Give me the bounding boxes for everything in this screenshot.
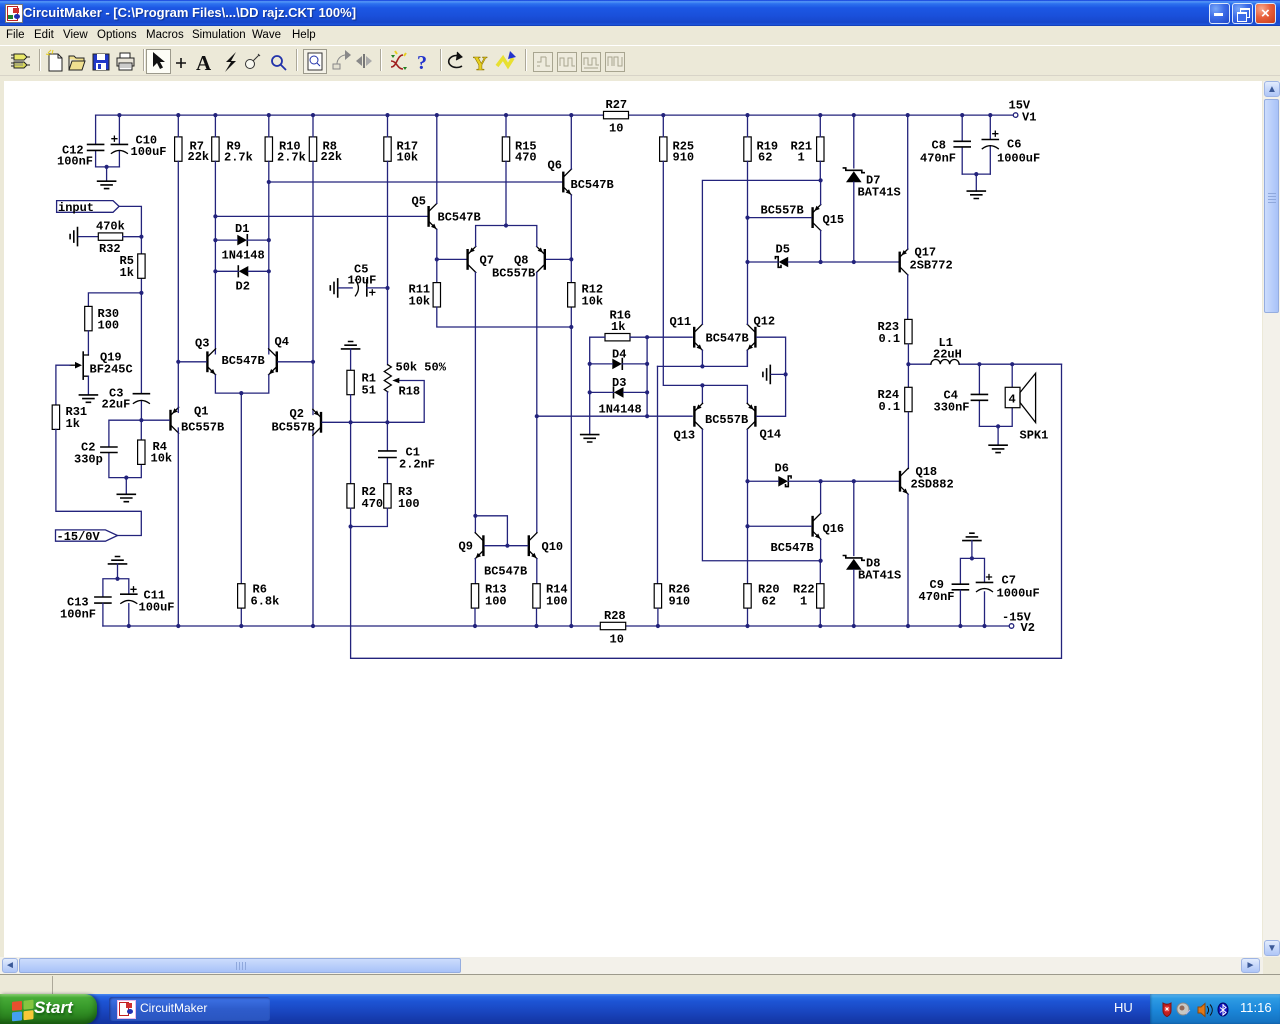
wire Q6 emitter to Q8 base / R12 bbox=[570, 195, 572, 283]
svg-text:2SB772: 2SB772 bbox=[910, 259, 953, 273]
svg-text:1N4148: 1N4148 bbox=[222, 249, 265, 263]
wire Q8 collector column to Q10 bbox=[536, 272, 538, 532]
svg-text:470: 470 bbox=[362, 497, 384, 511]
wire Q15 collector to D5 row bbox=[820, 231, 822, 262]
svg-text:910: 910 bbox=[669, 595, 691, 609]
capacitor C10 (electrolytic) bbox=[111, 115, 166, 167]
diode D8 (BAT41S schottky) bbox=[843, 556, 901, 583]
svg-text:1: 1 bbox=[800, 595, 807, 609]
wire feedback loop (output return) bbox=[351, 364, 1062, 658]
svg-text:10: 10 bbox=[610, 633, 624, 647]
svg-text:V1: V1 bbox=[1022, 111, 1036, 125]
wire Q9/Q10 base tie bbox=[485, 545, 528, 547]
svg-text:2.7k: 2.7k bbox=[277, 151, 306, 165]
svg-text:4: 4 bbox=[1009, 393, 1016, 407]
transistor Q16 (BC547B NPN) bbox=[771, 513, 845, 555]
wire R14 bottom bbox=[536, 609, 538, 627]
svg-text:470: 470 bbox=[515, 151, 537, 165]
resistor R26 bbox=[654, 583, 690, 609]
junction bbox=[700, 364, 704, 368]
svg-text:Q3: Q3 bbox=[195, 337, 209, 351]
svg-text:62: 62 bbox=[758, 151, 772, 165]
diode D5 (BAT41S schottky) bbox=[775, 243, 790, 268]
svg-text:BC557B: BC557B bbox=[761, 204, 804, 218]
junction bbox=[974, 172, 978, 176]
wire Q14 base to mid ground column bbox=[757, 374, 786, 416]
svg-text:Q16: Q16 bbox=[823, 522, 845, 536]
svg-text:-15/0V: -15/0V bbox=[57, 530, 101, 544]
resistor R32 bbox=[96, 220, 125, 257]
svg-text:BAT41S: BAT41S bbox=[858, 186, 901, 200]
wire R11/R12 bottoms join bbox=[437, 307, 572, 327]
junction bbox=[139, 235, 143, 239]
junction bbox=[435, 257, 439, 261]
wire ground to C9/C7 tops bbox=[960, 541, 984, 584]
capacitor C2 bbox=[74, 420, 141, 477]
svg-text:330p: 330p bbox=[74, 453, 103, 467]
wire R2/R3 bottoms join bbox=[351, 508, 388, 526]
svg-text:BC547B: BC547B bbox=[706, 332, 749, 346]
menu bar bbox=[0, 26, 1280, 45]
diode D3 (1N4148) bbox=[599, 376, 642, 417]
capacitor C4 bbox=[934, 364, 988, 426]
terminal V2 bbox=[1002, 611, 1035, 636]
junction bbox=[239, 391, 243, 395]
junction dots D1 bbox=[213, 238, 271, 242]
svg-text:R18: R18 bbox=[399, 385, 421, 399]
wire Q7/Q8 emitter rail bbox=[476, 226, 537, 247]
svg-text:D5: D5 bbox=[776, 243, 790, 257]
transistor Q17 (2SB772 PNP) bbox=[899, 246, 953, 276]
transistor Q10 (BC547B NPN) bbox=[484, 533, 563, 579]
junction dots D2 bbox=[213, 269, 271, 273]
svg-text:Q1: Q1 bbox=[194, 405, 208, 419]
junction bbox=[996, 424, 1000, 428]
wire Q11/Q12 emitters row bbox=[658, 350, 748, 366]
svg-text:BC547B: BC547B bbox=[571, 178, 614, 192]
svg-text:0.1: 0.1 bbox=[879, 400, 901, 414]
transistor Q3 (BC547B NPN) bbox=[195, 337, 265, 375]
svg-text:Q15: Q15 bbox=[823, 213, 845, 227]
capacitor C7 (electrolytic) bbox=[977, 574, 1040, 627]
svg-text:2.2nF: 2.2nF bbox=[399, 458, 435, 472]
svg-text:1k: 1k bbox=[66, 417, 80, 431]
resistor R25 bbox=[660, 137, 695, 165]
status strip bbox=[0, 974, 1280, 994]
wire Q5 emitter column bbox=[436, 229, 438, 282]
svg-text:R27: R27 bbox=[606, 98, 628, 112]
capacitor C12 bbox=[57, 115, 104, 168]
diode D4 (1N4148) bbox=[612, 348, 626, 370]
transistor Q19 (JFET BF245C) bbox=[70, 351, 133, 380]
wire Q12 emitter bbox=[746, 350, 748, 366]
wire D2 bbox=[215, 270, 268, 272]
toolbar bbox=[0, 45, 1280, 76]
wire Q7 base bbox=[437, 258, 467, 260]
wire top +15V rail bbox=[96, 114, 1014, 116]
wire R26 bottom bbox=[657, 609, 659, 627]
svg-text:D2: D2 bbox=[236, 280, 250, 294]
svg-text:D4: D4 bbox=[612, 348, 626, 362]
svg-text:100: 100 bbox=[398, 497, 420, 511]
svg-text:10k: 10k bbox=[397, 151, 419, 165]
wire C4 bottom to ground bbox=[979, 426, 998, 445]
svg-text:330nF: 330nF bbox=[934, 401, 970, 415]
terminal V1 bbox=[1009, 99, 1037, 125]
wire D7 column bbox=[853, 115, 855, 262]
wire D8 column bbox=[853, 481, 855, 626]
svg-text:Q7: Q7 bbox=[480, 254, 494, 268]
resistor R13 bbox=[471, 583, 506, 609]
wire Q6 base row bbox=[269, 181, 562, 183]
svg-text:0.1: 0.1 bbox=[879, 332, 901, 346]
svg-text:Q13: Q13 bbox=[674, 429, 696, 443]
svg-text:470nF: 470nF bbox=[920, 152, 956, 166]
wire Q2 base row to pot wiper bbox=[322, 381, 424, 423]
wire Q15 base bbox=[748, 217, 812, 219]
wire R17/R18 column bbox=[387, 115, 389, 365]
svg-text:10k: 10k bbox=[582, 295, 604, 309]
svg-text:D1: D1 bbox=[235, 222, 249, 236]
svg-text:Q5: Q5 bbox=[412, 195, 426, 209]
wire Q2 emitter column bbox=[312, 362, 314, 415]
svg-text:BC547B: BC547B bbox=[222, 354, 265, 368]
transistor Q6 (BC547B NPN) bbox=[548, 159, 614, 196]
svg-text:Q14: Q14 bbox=[760, 428, 782, 442]
wire R20 column bbox=[747, 481, 749, 626]
resistor R8 bbox=[309, 137, 342, 164]
wire Q3/Q4 emitters join bbox=[215, 375, 268, 393]
resistor R7 bbox=[175, 137, 210, 164]
junction dots top rail bbox=[117, 113, 992, 117]
resistor R3 bbox=[384, 484, 420, 511]
wire ground to R1 bbox=[350, 349, 352, 370]
ground under C8/C6 bbox=[967, 191, 985, 198]
svg-text:V2: V2 bbox=[1021, 621, 1035, 635]
junction dots D5 row bbox=[819, 260, 856, 264]
svg-text:BC557B: BC557B bbox=[705, 413, 748, 427]
svg-text:22k: 22k bbox=[188, 150, 210, 164]
junction dots Q2 base row bbox=[349, 420, 390, 424]
svg-text:22uH: 22uH bbox=[933, 348, 962, 362]
wire Q10 emitter to R14 bbox=[536, 559, 538, 584]
transistor Q11 (BC547B NPN) bbox=[670, 315, 749, 350]
diode D7 (BAT41S schottky) bbox=[843, 168, 900, 200]
wire Q1 emitter to R7 column bbox=[177, 362, 179, 413]
wire Q9 collector-base tie bbox=[475, 516, 507, 546]
svg-text:Y: Y bbox=[473, 53, 488, 75]
wire Q5 collector to rail bbox=[436, 115, 438, 203]
diode D6 (BAT41S schottky) bbox=[775, 462, 792, 487]
wire R5 bottom to R30 bbox=[88, 293, 141, 307]
transistor Q4 (BC547B NPN, mirrored) bbox=[269, 335, 289, 375]
svg-text:1: 1 bbox=[798, 151, 805, 165]
capacitor C13 bbox=[60, 596, 111, 627]
ground under D-chain bbox=[581, 435, 599, 442]
wire Q5 base row bbox=[215, 215, 427, 217]
svg-text:C6: C6 bbox=[1007, 138, 1021, 152]
wire ground to C13/C11 tops bbox=[103, 564, 129, 597]
resistor R19 bbox=[744, 137, 778, 165]
wire Q16 collector bbox=[820, 481, 822, 513]
wire R16 left / D-chain left column bbox=[590, 337, 605, 434]
svg-text:R28: R28 bbox=[604, 609, 626, 623]
capacitor C6 (electrolytic) bbox=[982, 115, 1040, 174]
wire Q11 collector to R21 node bbox=[702, 180, 820, 324]
svg-text:10k: 10k bbox=[151, 452, 173, 466]
wire R1 bottom bbox=[350, 395, 352, 423]
resistor R12 bbox=[568, 283, 604, 309]
svg-text:100nF: 100nF bbox=[57, 155, 93, 169]
junction bbox=[213, 214, 217, 218]
speaker SPK1 bbox=[998, 364, 1048, 442]
transistor Q14 (BC557B PNP, mirrored) bbox=[747, 403, 781, 441]
wire Q7 collector column to Q9 bbox=[474, 272, 476, 532]
svg-text:2.7k: 2.7k bbox=[224, 151, 253, 165]
junction bbox=[504, 223, 508, 227]
ground left of R32 bbox=[70, 228, 98, 246]
ground under C4/SPK1 bbox=[989, 445, 1007, 452]
resistor R16 bbox=[605, 309, 631, 341]
junction dots bottom rail bbox=[127, 624, 987, 628]
wire Q13 collector to Q16 emitter row bbox=[702, 430, 820, 561]
svg-text:22k: 22k bbox=[321, 150, 343, 164]
resistor R2 bbox=[347, 422, 383, 511]
transistor Q12 (BC547B NPN, mirrored) bbox=[747, 315, 775, 351]
transistor Q5 (BC547B NPN) bbox=[412, 195, 481, 230]
wire R32 to node bbox=[123, 236, 142, 238]
node input flag bbox=[57, 201, 120, 215]
svg-text:10k: 10k bbox=[409, 295, 431, 309]
wire D5 row to Q17 base bbox=[748, 261, 899, 263]
svg-text:BC547B: BC547B bbox=[484, 565, 527, 579]
wire D3 bbox=[590, 391, 647, 393]
ground above C9/C7 bbox=[963, 533, 981, 540]
transistor Q15 (BC557B PNP) bbox=[761, 204, 845, 231]
wire R10 column bbox=[268, 115, 270, 354]
svg-text:C8: C8 bbox=[932, 139, 946, 153]
svg-text:100: 100 bbox=[546, 595, 568, 609]
junction bbox=[176, 360, 180, 364]
junction bbox=[267, 180, 271, 184]
svg-text:50k 50%: 50k 50% bbox=[396, 361, 447, 375]
svg-text:Q6: Q6 bbox=[548, 159, 562, 173]
svg-text:470nF: 470nF bbox=[919, 590, 955, 604]
resistor R28 bbox=[600, 609, 625, 647]
wire Q16 base bbox=[748, 525, 812, 527]
resistor R4 bbox=[126, 420, 172, 477]
wire D6 row to Q18 base bbox=[748, 480, 899, 482]
svg-text:100uF: 100uF bbox=[139, 601, 175, 615]
wire R16 right to Q11 base bbox=[630, 336, 692, 338]
wire Q14 collector to D6 row bbox=[746, 430, 748, 482]
wire Q19 source to ground bbox=[87, 376, 89, 394]
wire Q2 collector to -15V rail bbox=[312, 430, 314, 626]
junction bbox=[385, 286, 389, 290]
svg-text:Q12: Q12 bbox=[754, 315, 776, 329]
resistor R30 bbox=[85, 306, 119, 332]
svg-text:100uF: 100uF bbox=[131, 145, 167, 159]
svg-text:1N4148: 1N4148 bbox=[599, 403, 642, 417]
wire R23 bottom to output node bbox=[907, 344, 909, 364]
wire R18 bottom bbox=[386, 392, 388, 422]
transistor Q2 (BC557B PNP, mirrored) bbox=[272, 407, 323, 435]
wire Q9 emitter to R13 bbox=[474, 559, 476, 584]
ground under C2/R4 bbox=[117, 494, 135, 501]
wire Q1 base node bbox=[141, 419, 169, 421]
resistor R5 bbox=[120, 237, 146, 293]
junction dots D3 bbox=[588, 390, 650, 394]
resistor R24 bbox=[878, 364, 913, 414]
svg-text:100nF: 100nF bbox=[60, 608, 96, 622]
capacitor C1 bbox=[379, 422, 435, 483]
wire R12 bottom to -15V rail bbox=[570, 327, 572, 626]
wire R9 column bbox=[214, 115, 216, 354]
svg-text:D3: D3 bbox=[612, 376, 626, 390]
junction bbox=[569, 325, 573, 329]
wire Q1 collector to -15V rail bbox=[177, 428, 179, 626]
wire Q12 base to mid ground column bbox=[757, 337, 786, 374]
svg-text:10: 10 bbox=[609, 122, 623, 136]
junction bbox=[139, 291, 143, 295]
svg-text:62: 62 bbox=[762, 595, 776, 609]
wire R30 to Q19 drain bbox=[87, 331, 89, 355]
transistor Q18 (2SD882 NPN) bbox=[899, 465, 954, 494]
svg-text:BC547B: BC547B bbox=[438, 211, 481, 225]
svg-text:100: 100 bbox=[485, 595, 507, 609]
ground under Q19 bbox=[79, 395, 97, 402]
wire R8 column bbox=[312, 115, 314, 362]
junction bbox=[645, 414, 649, 418]
wire C8/C6 bottoms bbox=[962, 174, 990, 191]
junction bbox=[569, 257, 573, 261]
wire Q13 emitter bbox=[701, 385, 703, 403]
svg-text:?: ? bbox=[417, 52, 427, 74]
capacitor C9 bbox=[919, 578, 969, 626]
wire to ground under C2/R4 bbox=[125, 478, 127, 495]
taskbar bbox=[0, 994, 1280, 1024]
svg-text:22uF: 22uF bbox=[102, 398, 131, 412]
svg-text:Q9: Q9 bbox=[459, 540, 473, 554]
junction bbox=[906, 362, 910, 366]
svg-text:1k: 1k bbox=[611, 320, 625, 334]
wire D-chain right column bbox=[646, 337, 648, 416]
scrollbars bbox=[1263, 81, 1280, 957]
resistor R20 bbox=[744, 583, 780, 609]
wire Q8 base bbox=[546, 258, 571, 260]
svg-text:2SD882: 2SD882 bbox=[911, 478, 954, 492]
junction bbox=[105, 165, 109, 169]
svg-text:input: input bbox=[58, 201, 94, 215]
ground mid (Q12/Q14 bases) bbox=[763, 365, 786, 383]
junction bbox=[700, 383, 704, 387]
wire Q17 emitter to rail bbox=[907, 115, 909, 249]
wire R7 column bbox=[177, 115, 179, 362]
junction bbox=[311, 360, 315, 364]
resistor R27 bbox=[604, 98, 629, 136]
svg-text:Q10: Q10 bbox=[542, 540, 564, 554]
wire R31 bottom to -15/0V flag bbox=[56, 429, 141, 535]
wire Q3 base bbox=[178, 361, 206, 363]
resistor R6 bbox=[238, 583, 280, 609]
transistor Q9 (BC547B NPN, mirrored) bbox=[459, 533, 485, 559]
junction dots D6 row bbox=[745, 479, 856, 483]
capacitor C8 bbox=[920, 115, 970, 174]
resistor R10 bbox=[265, 137, 306, 165]
svg-text:Q4: Q4 bbox=[275, 335, 289, 349]
transistor Q7 (BC557B PNP) bbox=[466, 246, 494, 272]
junction bbox=[115, 577, 119, 581]
svg-text:100: 100 bbox=[98, 319, 120, 333]
wire R25 column to Q13/Q14 emitter row bbox=[663, 115, 747, 403]
svg-text:6.8k: 6.8k bbox=[251, 595, 280, 609]
svg-text:Q11: Q11 bbox=[670, 315, 692, 329]
resistor R23 bbox=[878, 319, 913, 346]
wire R21 column bbox=[819, 115, 821, 180]
svg-text:BC557B: BC557B bbox=[181, 421, 224, 435]
transistor Q8 (BC557B PNP, mirrored) bbox=[492, 246, 546, 280]
ground above C13/C11 bbox=[109, 557, 127, 564]
wire Q18 emitter to -15V rail bbox=[907, 494, 909, 626]
resistor R9 bbox=[212, 137, 253, 165]
junction bbox=[745, 524, 749, 528]
svg-text:1000uF: 1000uF bbox=[997, 152, 1040, 166]
svg-text:1k: 1k bbox=[120, 266, 134, 280]
ground left of C5 bbox=[330, 279, 352, 297]
svg-text:51: 51 bbox=[362, 384, 376, 398]
title bar bbox=[0, 0, 1280, 26]
resistor R31 bbox=[52, 405, 87, 431]
junction bbox=[645, 335, 649, 339]
wire Q17 collector to R23 bbox=[907, 275, 909, 320]
diode D2 (1N4148) bbox=[236, 266, 250, 294]
svg-text:A: A bbox=[196, 51, 212, 75]
wire R15 column bbox=[505, 115, 507, 225]
node -15/0V flag bbox=[56, 530, 118, 544]
wire R19 column / Q12 collector bbox=[747, 115, 749, 324]
wire D1 bbox=[215, 239, 268, 241]
transistor Q13 (BC557B PNP) bbox=[674, 403, 749, 442]
diode D1 (1N4148) bbox=[222, 222, 265, 263]
wire Q16 emitter bbox=[820, 539, 822, 560]
junction bbox=[139, 418, 143, 422]
junction bbox=[535, 414, 539, 418]
resistor R17 bbox=[384, 137, 418, 165]
resistor R22 bbox=[793, 561, 824, 626]
inductor L1 (22uH) bbox=[908, 336, 1061, 364]
svg-text:BC547B: BC547B bbox=[771, 541, 814, 555]
svg-text:SPK1: SPK1 bbox=[1020, 429, 1049, 443]
svg-text:BAT41S: BAT41S bbox=[858, 569, 901, 583]
svg-text:BC557B: BC557B bbox=[492, 267, 535, 281]
junction bbox=[349, 524, 353, 528]
junction bbox=[124, 476, 128, 480]
svg-text:BF245C: BF245C bbox=[90, 363, 133, 377]
svg-text:910: 910 bbox=[673, 151, 695, 165]
wire C12/C10 bottoms bbox=[96, 167, 120, 181]
svg-text:Q8: Q8 bbox=[514, 254, 528, 268]
resistor R1 bbox=[347, 370, 376, 397]
wire D4 bbox=[590, 363, 647, 365]
svg-text:470k: 470k bbox=[96, 220, 125, 234]
svg-text:D6: D6 bbox=[775, 462, 789, 476]
junction bbox=[473, 514, 477, 518]
transistor Q1 (BC557B PNP) bbox=[169, 405, 224, 435]
junction bbox=[819, 559, 823, 563]
wire Q19 gate to R31 bbox=[56, 365, 70, 405]
wire -15V bottom rail bbox=[103, 625, 1009, 627]
capacitor C5 (electrolytic, horizontal) bbox=[348, 263, 388, 296]
